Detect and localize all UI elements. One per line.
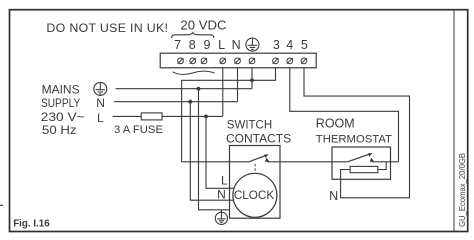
- svg-text:THERMOSTAT: THERMOSTAT: [316, 133, 392, 145]
- svg-text:Fig. I.16: Fig. I.16: [13, 219, 50, 230]
- wire: mains L row to fuse: [113, 115, 142, 117]
- terminal 9 screw: [201, 58, 207, 64]
- wire: fuse to terminal L: [162, 115, 223, 117]
- earth symbol above terminal strip: [246, 38, 259, 51]
- svg-text:20 VDC: 20 VDC: [180, 17, 227, 32]
- svg-text:CLOCK: CLOCK: [234, 189, 274, 202]
- clock circle: [233, 173, 277, 217]
- clock switch fixed contact: [265, 158, 270, 162]
- svg-text:SUPPLY: SUPPLY: [41, 96, 80, 110]
- terminal strip TB1: [160, 53, 316, 68]
- switched live wire segment 2: [268, 161, 348, 163]
- terminal earth screw: [249, 58, 255, 64]
- junction dot on earth row: [197, 87, 201, 91]
- wire: mains earth row: [116, 88, 252, 90]
- registration tick: [0, 204, 3, 206]
- svg-text:50 Hz: 50 Hz: [42, 123, 77, 137]
- svg-text:MAINS: MAINS: [42, 82, 80, 96]
- switched live wire segment 3: [372, 161, 398, 163]
- junction dot on N row: [188, 100, 192, 104]
- flexible link squiggle: [173, 71, 215, 74]
- terminal 4 screw: [287, 58, 293, 64]
- svg-text:3: 3: [273, 38, 280, 52]
- terminal N screw: [235, 58, 241, 64]
- terminal 3 screw: [273, 58, 279, 64]
- svg-text:L: L: [218, 38, 225, 52]
- svg-text:7: 7: [174, 38, 181, 52]
- terminal L screw: [220, 58, 226, 64]
- mechanical link dashed: [254, 164, 256, 173]
- svg-text:230 V~: 230 V~: [41, 110, 85, 124]
- thermostat box: [332, 147, 391, 179]
- svg-text:N: N: [232, 38, 241, 52]
- svg-text:9: 9: [204, 38, 211, 52]
- svg-text:L: L: [97, 111, 104, 125]
- svg-text:3 A FUSE: 3 A FUSE: [114, 124, 163, 136]
- wire: terminal 5 to thermostat N line: [304, 68, 410, 198]
- fuse F1 3A: [141, 113, 162, 120]
- thermostat switch blade: [348, 154, 370, 162]
- junction dot at earth drop / terminal 3 line: [250, 78, 254, 82]
- svg-text:4: 4: [286, 38, 293, 52]
- clock earth symbol: [215, 210, 227, 225]
- svg-text:ROOM: ROOM: [316, 117, 355, 131]
- svg-text:N: N: [96, 96, 105, 110]
- terminal 5 screw: [301, 58, 307, 64]
- thermostat switch fixed contact: [370, 158, 375, 162]
- svg-text:N: N: [217, 187, 226, 201]
- sidebar divider: [453, 10, 455, 232]
- svg-text:CONTACTS: CONTACTS: [226, 132, 291, 146]
- terminal 7 screw: [178, 58, 184, 64]
- mains earth symbol: [94, 82, 107, 95]
- wire: L branch to clock: [206, 116, 234, 188]
- svg-text:8: 8: [189, 38, 196, 52]
- svg-text:5: 5: [301, 38, 308, 52]
- wire: terminal 3 to switch feed: [182, 68, 276, 162]
- wire: terminal earth drop: [251, 68, 253, 89]
- svg-text:N: N: [329, 189, 338, 203]
- switched live wire segment 1: [182, 161, 249, 163]
- resistor anticipator: [350, 166, 378, 172]
- clock switch blade: [249, 155, 266, 161]
- wire: earth branch to clock: [199, 89, 230, 210]
- svg-text:L: L: [221, 174, 228, 188]
- svg-text:DO NOT USE IN UK!: DO NOT USE IN UK!: [46, 21, 168, 35]
- brace over terminals 7-9: [172, 33, 214, 38]
- terminal 8 screw: [190, 58, 196, 64]
- svg-text:GU_Ecomax_20/0GB: GU_Ecomax_20/0GB: [458, 153, 467, 227]
- wire: resistor to switched live: [378, 162, 386, 170]
- clock box: [230, 146, 281, 219]
- wire: mains N row: [114, 101, 238, 103]
- wire: terminal L drop: [222, 68, 224, 117]
- junction dot on L row: [204, 115, 208, 119]
- wire: N branch to clock: [190, 102, 233, 201]
- wire: terminal N drop: [237, 68, 239, 102]
- svg-text:SWITCH: SWITCH: [227, 119, 272, 131]
- wire: terminal 4 to switch output: [290, 68, 399, 162]
